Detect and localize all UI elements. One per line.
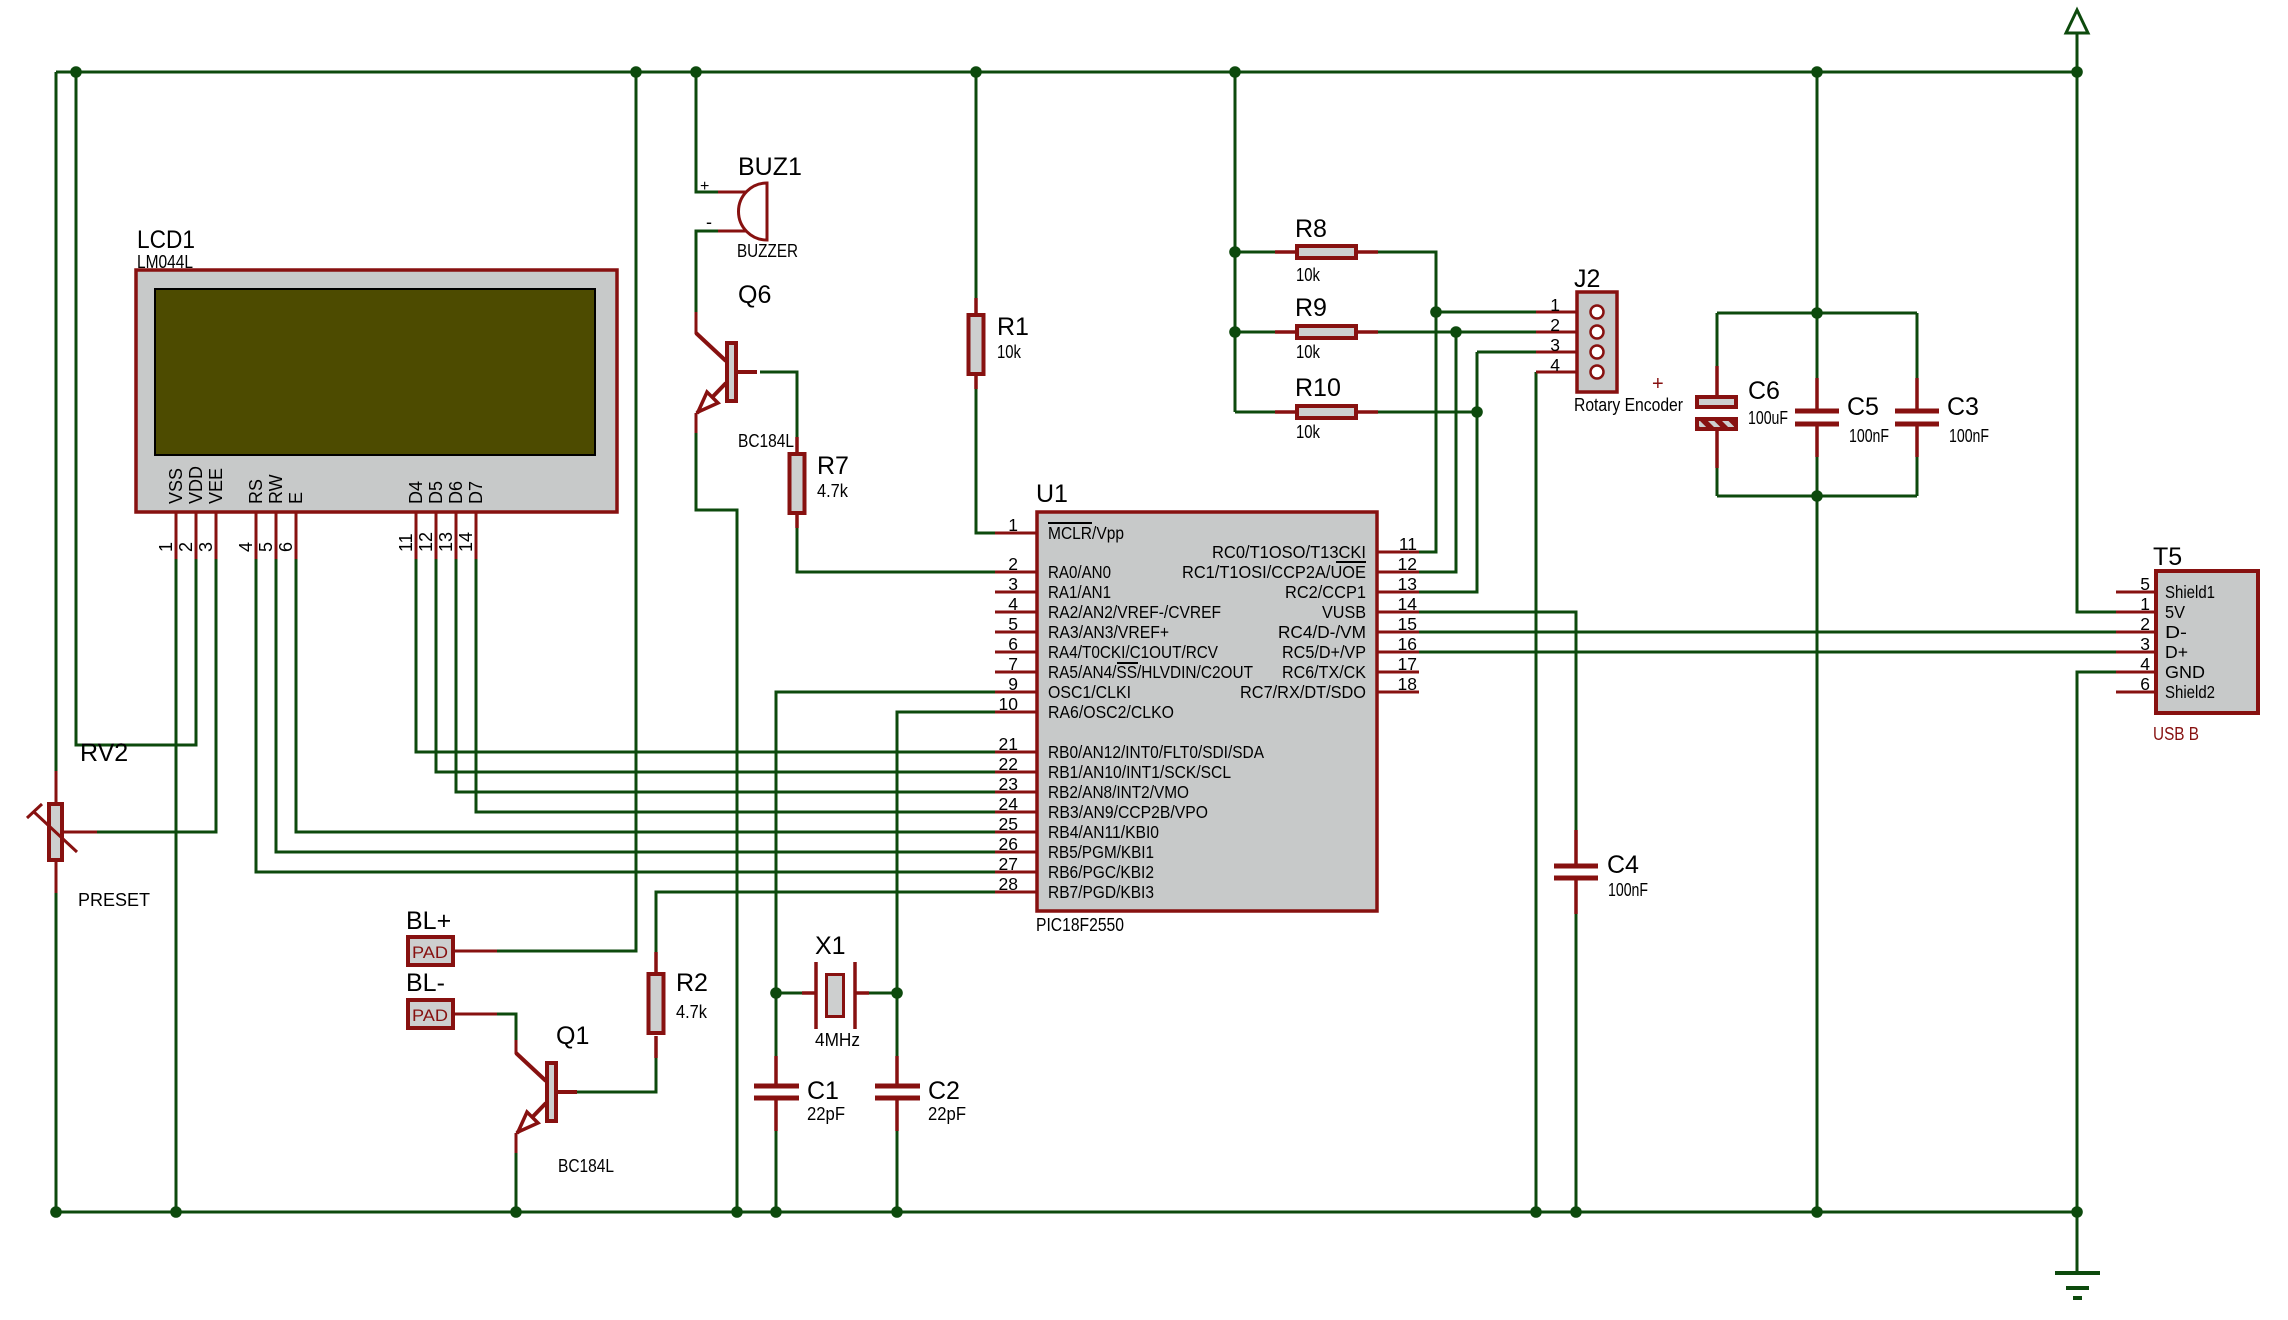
wire VEE net RV2 wiper to LCD pin3 — [97, 559, 216, 832]
svg-text:D+: D+ — [2165, 642, 2188, 662]
svg-text:PIC18F2550: PIC18F2550 — [1036, 915, 1124, 935]
connector T5 pin numbers — [2140, 574, 2150, 694]
capacitor C6 plus sign — [1652, 373, 1664, 395]
connector J2 pin stubs — [1536, 312, 1577, 372]
svg-text:RA5/AN4/SS/HLVDIN/C2OUT: RA5/AN4/SS/HLVDIN/C2OUT — [1048, 662, 1253, 682]
svg-text:100nF: 100nF — [1608, 880, 1648, 900]
microcontroller U1 part number label — [1036, 915, 1124, 935]
preset potentiometer RV2 labels — [78, 739, 150, 910]
svg-text:X1: X1 — [815, 932, 846, 960]
svg-text:3: 3 — [2140, 634, 2150, 654]
transistor Q6 labels — [738, 281, 794, 451]
svg-text:Shield2: Shield2 — [2165, 682, 2215, 702]
svg-text:9: 9 — [1008, 674, 1018, 694]
LCD LCD1 pin name labels — [166, 466, 486, 504]
svg-text:C3: C3 — [1947, 393, 1979, 421]
svg-text:RV2: RV2 — [80, 739, 128, 767]
capacitor C2 labels — [928, 1077, 966, 1124]
wire OSC2 net U1 pin10 to X1 right and C2 — [869, 712, 995, 1056]
svg-text:RB3/AN9/CCP2B/VPO: RB3/AN9/CCP2B/VPO — [1048, 802, 1208, 822]
resistor R1 — [969, 298, 984, 389]
wire +5V down right side to T5 5V pin — [2077, 33, 2116, 612]
svg-text:Shield1: Shield1 — [2165, 582, 2215, 602]
resistor R8 — [1275, 246, 1378, 258]
capacitor C5 labels — [1847, 393, 1889, 446]
svg-text:C2: C2 — [928, 1077, 960, 1105]
svg-text:2: 2 — [1008, 554, 1018, 574]
buzzer BUZ1 labels — [700, 153, 802, 261]
LCD LCD1 pin stubs — [176, 512, 476, 559]
connector T5 pin labels — [2165, 582, 2215, 702]
LCD LCD1 title label — [137, 226, 195, 272]
pad BL- — [408, 1000, 497, 1028]
svg-text:PAD: PAD — [412, 943, 448, 962]
microcontroller U1 body — [1037, 512, 1377, 911]
microcontroller U1 left pin numbers — [999, 515, 1019, 894]
capacitor C1 — [754, 1056, 799, 1131]
crystal X1 labels — [815, 932, 860, 1050]
svg-text:17: 17 — [1398, 654, 1417, 674]
wire capacitor group bottom bus — [1717, 457, 1917, 502]
svg-text:22: 22 — [999, 754, 1018, 774]
svg-text:D-: D- — [2165, 622, 2187, 642]
wire D4 net LCD pin11 to U1 RB0 — [416, 559, 995, 752]
svg-text:4: 4 — [1008, 594, 1018, 614]
svg-text:100nF: 100nF — [1849, 426, 1889, 446]
svg-text:BUZZER: BUZZER — [737, 241, 798, 261]
svg-text:6: 6 — [1008, 634, 1018, 654]
svg-text:+: + — [700, 178, 709, 195]
svg-text:RC7/RX/DT/SDO: RC7/RX/DT/SDO — [1240, 682, 1366, 702]
svg-text:26: 26 — [999, 834, 1018, 854]
connector J2 labels — [1574, 265, 1683, 415]
svg-text:4: 4 — [2140, 654, 2150, 674]
wire R1 bottom to U1 MCLR — [976, 389, 995, 533]
svg-text:D5: D5 — [426, 481, 446, 504]
svg-text:T5: T5 — [2153, 543, 2182, 571]
capacitor C5 — [1795, 378, 1839, 457]
svg-text:RS: RS — [246, 479, 266, 504]
wire +5V branch to RV2 — [55, 72, 58, 771]
svg-text:D7: D7 — [466, 481, 486, 504]
svg-text:23: 23 — [999, 774, 1018, 794]
wire BUZ1 negative to Q6 collector — [696, 231, 718, 312]
svg-text:RC0/T1OSO/T13CKI: RC0/T1OSO/T13CKI — [1212, 542, 1366, 562]
svg-text:14: 14 — [1398, 594, 1418, 614]
svg-text:3: 3 — [1550, 335, 1560, 355]
LCD LCD1 screen — [155, 289, 595, 455]
svg-text:10k: 10k — [997, 342, 1022, 362]
svg-text:LCD1: LCD1 — [137, 226, 195, 254]
svg-text:5: 5 — [2140, 574, 2150, 594]
wire D7 net LCD pin14 to U1 RB3 — [476, 559, 995, 812]
svg-text:RB1/AN10/INT1/SCK/SCL: RB1/AN10/INT1/SCK/SCL — [1048, 762, 1231, 782]
wire capacitor group bottom to GND rail — [1816, 496, 1819, 1212]
microcontroller U1 left pin labels — [1048, 523, 1264, 902]
svg-text:VEE: VEE — [206, 468, 226, 504]
svg-text:+: + — [1652, 373, 1664, 395]
svg-text:RB4/AN11/KBI0: RB4/AN11/KBI0 — [1048, 822, 1159, 842]
transistor Q1 body with collector base emitter — [516, 1040, 577, 1153]
pad BL+ label — [406, 907, 451, 935]
svg-text:22pF: 22pF — [928, 1104, 966, 1124]
svg-text:21: 21 — [999, 734, 1018, 754]
svg-text:7: 7 — [1008, 654, 1018, 674]
svg-text:J2: J2 — [1574, 265, 1600, 293]
svg-text:5: 5 — [1008, 614, 1018, 634]
svg-text:BL-: BL- — [406, 969, 445, 997]
svg-text:E: E — [286, 492, 306, 504]
svg-text:VSS: VSS — [166, 468, 186, 504]
svg-text:10k: 10k — [1296, 265, 1321, 285]
svg-text:RA1/AN1: RA1/AN1 — [1048, 582, 1111, 602]
wire +5V riser to capacitor group — [1816, 72, 1819, 313]
pad BL- label — [406, 969, 445, 997]
wire Q1 emitter to GND rail — [515, 1153, 518, 1212]
wire net R8 to J2 pin1 and U1 RC0 — [1378, 252, 1536, 552]
svg-text:18: 18 — [1398, 674, 1417, 694]
svg-text:R7: R7 — [817, 452, 849, 480]
microcontroller U1 right pin stubs — [1377, 552, 1419, 692]
svg-text:100uF: 100uF — [1748, 408, 1788, 428]
buzzer BUZ1 leads — [718, 192, 747, 231]
wire +5V top rail — [56, 71, 2077, 74]
capacitor C6 labels — [1748, 377, 1788, 428]
preset potentiometer RV2 body — [49, 804, 62, 860]
wire C2 bottom to GND rail — [896, 1131, 899, 1212]
svg-text:13: 13 — [1398, 574, 1417, 594]
svg-text:D4: D4 — [406, 481, 426, 504]
wire C4 bottom to GND rail — [1575, 914, 1578, 1212]
svg-text:RA3/AN3/VREF+: RA3/AN3/VREF+ — [1048, 622, 1169, 642]
svg-text:RA4/T0CKI/C1OUT/RCV: RA4/T0CKI/C1OUT/RCV — [1048, 642, 1218, 662]
svg-text:RB7/PGD/KBI3: RB7/PGD/KBI3 — [1048, 882, 1154, 902]
svg-text:VDD: VDD — [186, 466, 206, 504]
LCD LCD1 body — [136, 270, 617, 512]
svg-text:RB5/PGM/KBI1: RB5/PGM/KBI1 — [1048, 842, 1154, 862]
junction dots on +5V rail — [70, 66, 2083, 338]
svg-text:RC6/TX/CK: RC6/TX/CK — [1282, 662, 1366, 682]
LCD LCD1 pin numbers — [156, 532, 476, 552]
wire RW net LCD pin5 to U1 RB5 — [276, 559, 995, 852]
wire VDD loop from +5V rail to LCD pin2 — [76, 72, 196, 745]
capacitor C4 labels — [1607, 851, 1648, 900]
svg-text:16: 16 — [1398, 634, 1417, 654]
svg-text:PAD: PAD — [412, 1006, 448, 1025]
wire E net LCD pin6 to U1 RB4 — [296, 559, 995, 832]
wire R7 bottom to U1 RA0 — [797, 528, 995, 572]
svg-text:3: 3 — [196, 542, 216, 552]
wire net R9 to J2 pin2 and U1 RC1 — [1378, 326, 1536, 572]
connector T5 body — [2156, 571, 2258, 713]
svg-text:RB0/AN12/INT0/FLT0/SDI/SDA: RB0/AN12/INT0/FLT0/SDI/SDA — [1048, 742, 1264, 762]
capacitor C1 labels — [807, 1077, 845, 1124]
wire R2 bottom to Q1 base — [577, 1058, 656, 1092]
svg-text:C1: C1 — [807, 1077, 839, 1105]
wire OSC1 net U1 pin9 to X1 left and C1 — [770, 692, 995, 1056]
capacitor C2 — [875, 1056, 920, 1131]
wire J2 pin4 to GND rail — [1535, 372, 1538, 1212]
svg-text:R2: R2 — [676, 969, 708, 997]
svg-text:RA0/AN0: RA0/AN0 — [1048, 562, 1111, 582]
svg-text:14: 14 — [456, 532, 476, 552]
connector J2 pin numbers — [1550, 295, 1560, 375]
ground symbol bottom right — [2055, 1212, 2100, 1298]
svg-text:VUSB: VUSB — [1322, 602, 1366, 622]
crystal X1 — [802, 962, 869, 1029]
svg-text:BC184L: BC184L — [738, 431, 794, 451]
junction dots on GND rail — [50, 1206, 2083, 1218]
resistor R9 — [1275, 326, 1378, 338]
connector T5 USB B label — [2153, 724, 2199, 744]
connector T5 pin stubs — [2116, 592, 2156, 692]
wire D6 net LCD pin13 to U1 RB2 — [456, 559, 995, 792]
svg-text:Rotary Encoder: Rotary Encoder — [1574, 395, 1683, 415]
resistor R1 labels — [997, 313, 1029, 362]
svg-text:3: 3 — [1008, 574, 1018, 594]
svg-text:11: 11 — [1399, 534, 1417, 554]
resistor R7 labels — [817, 452, 849, 501]
connector J2 pin circles — [1591, 306, 1604, 379]
transistor Q1 labels — [556, 1022, 614, 1176]
wire D+ net U1 RC5 to T5 — [1419, 651, 2116, 654]
resistor R9 labels — [1295, 294, 1327, 362]
wire C1 bottom to GND rail — [775, 1131, 778, 1212]
svg-text:RA6/OSC2/CLKO: RA6/OSC2/CLKO — [1048, 702, 1174, 722]
svg-text:Q6: Q6 — [738, 281, 771, 309]
wire D- net U1 RC4 to T5 — [1419, 631, 2116, 634]
wire Q6 emitter to GND rail — [696, 433, 737, 1212]
capacitor C3 — [1895, 378, 1939, 457]
svg-text:1: 1 — [156, 542, 176, 552]
svg-text:C6: C6 — [1748, 377, 1780, 405]
preset potentiometer RV2 leads — [56, 771, 97, 893]
svg-text:1: 1 — [1550, 295, 1560, 315]
wire LCD VSS to GND rail — [175, 559, 178, 1212]
svg-text:4: 4 — [236, 542, 256, 552]
svg-text:C5: C5 — [1847, 393, 1879, 421]
svg-text:27: 27 — [999, 854, 1018, 874]
wire +5V to BUZ1 positive — [696, 72, 718, 192]
resistor R10 — [1275, 406, 1378, 418]
svg-text:R9: R9 — [1295, 294, 1327, 322]
resistor R8 labels — [1295, 215, 1327, 285]
wire U1 RB7 to R2 top — [656, 892, 995, 952]
wire GND bottom rail — [56, 1211, 2077, 1214]
wire T5 GND pin to GND rail — [2077, 672, 2116, 1212]
svg-text:11: 11 — [396, 533, 416, 552]
svg-text:22pF: 22pF — [807, 1104, 845, 1124]
svg-text:BL+: BL+ — [406, 907, 451, 935]
svg-text:R8: R8 — [1295, 215, 1327, 243]
svg-text:25: 25 — [999, 814, 1018, 834]
svg-text:-: - — [706, 212, 712, 232]
microcontroller U1 left pin stubs — [995, 533, 1037, 892]
resistor R2 — [649, 952, 664, 1058]
capacitor C3 labels — [1947, 393, 1989, 446]
svg-text:2: 2 — [2140, 614, 2150, 634]
svg-text:U1: U1 — [1036, 480, 1068, 508]
wire +5V bus to R8 R9 R10 — [1235, 72, 1275, 412]
svg-text:RB2/AN8/INT2/VMO: RB2/AN8/INT2/VMO — [1048, 782, 1189, 802]
svg-text:D6: D6 — [446, 481, 466, 504]
svg-text:R1: R1 — [997, 313, 1029, 341]
svg-text:LM044L: LM044L — [137, 252, 193, 272]
resistor R2 labels — [676, 969, 708, 1022]
microcontroller U1 title — [1036, 480, 1068, 508]
svg-text:10: 10 — [999, 694, 1019, 714]
svg-text:2: 2 — [1550, 315, 1560, 335]
svg-text:4: 4 — [1550, 355, 1560, 375]
svg-text:BC184L: BC184L — [558, 1156, 614, 1176]
svg-text:12: 12 — [416, 532, 436, 552]
wire +5V to R1 top — [975, 72, 978, 298]
resistor R7 — [790, 437, 805, 528]
svg-text:4.7k: 4.7k — [817, 481, 849, 501]
wire Q6 base to R7 top — [760, 372, 797, 437]
capacitor C4 — [1554, 830, 1598, 914]
svg-text:5V: 5V — [2165, 602, 2185, 622]
svg-text:24: 24 — [999, 794, 1019, 814]
svg-text:12: 12 — [1398, 554, 1417, 574]
wire D5 net LCD pin12 to U1 RB1 — [436, 559, 995, 772]
svg-text:1: 1 — [1008, 515, 1018, 535]
svg-text:RB6/PGC/KBI2: RB6/PGC/KBI2 — [1048, 862, 1154, 882]
svg-text:15: 15 — [1398, 614, 1417, 634]
svg-text:4MHz: 4MHz — [815, 1030, 860, 1050]
pad BL+ — [408, 937, 497, 965]
wire capacitor group top bus — [1717, 307, 1917, 378]
svg-text:10k: 10k — [1296, 422, 1321, 442]
svg-text:Q1: Q1 — [556, 1022, 589, 1050]
svg-text:MCLR/Vpp: MCLR/Vpp — [1048, 523, 1124, 543]
svg-text:5: 5 — [256, 542, 276, 552]
svg-text:OSC1/CLKI: OSC1/CLKI — [1048, 682, 1131, 702]
wire BL- pad to Q1 collector — [497, 1014, 516, 1040]
svg-text:BUZ1: BUZ1 — [738, 153, 802, 181]
svg-text:PRESET: PRESET — [78, 890, 150, 910]
svg-text:1: 1 — [2140, 594, 2150, 614]
svg-text:RC5/D+/VP: RC5/D+/VP — [1282, 642, 1366, 662]
svg-text:100nF: 100nF — [1949, 426, 1989, 446]
wire RV2 bottom to GND — [55, 893, 58, 1212]
microcontroller U1 right pin labels — [1182, 542, 1366, 702]
microcontroller U1 overlines MCLR SS UOE — [1048, 523, 1366, 663]
connector T5 title — [2153, 543, 2182, 571]
svg-text:GND: GND — [2165, 662, 2205, 682]
wire BL+ riser to +5V rail — [497, 72, 636, 951]
svg-text:RW: RW — [266, 474, 286, 504]
svg-text:RC4/D-/VM: RC4/D-/VM — [1278, 622, 1366, 642]
svg-text:13: 13 — [436, 532, 456, 552]
resistor R10 labels — [1295, 374, 1341, 442]
buzzer BUZ1 symbol — [739, 183, 768, 240]
preset potentiometer RV2 wiper arrow — [27, 804, 77, 852]
transistor Q6 body with collector base emitter — [696, 312, 757, 433]
svg-text:10k: 10k — [1296, 342, 1321, 362]
wire RS net LCD pin4 to U1 RB6 — [256, 559, 995, 872]
power symbol +5V arrow top right — [2066, 10, 2088, 33]
svg-text:2: 2 — [176, 542, 196, 552]
svg-text:28: 28 — [999, 874, 1018, 894]
connector J2 body — [1577, 292, 1617, 392]
svg-text:RA2/AN2/VREF-/CVREF: RA2/AN2/VREF-/CVREF — [1048, 602, 1221, 622]
svg-text:4.7k: 4.7k — [676, 1002, 708, 1022]
svg-text:6: 6 — [276, 542, 296, 552]
wire VUSB net U1 pin14 to C4 top — [1419, 612, 1576, 830]
wire net R10 to J2 pin3 and U1 RC2 — [1378, 352, 1536, 592]
svg-text:R10: R10 — [1295, 374, 1341, 402]
capacitor C6 polarized — [1697, 366, 1736, 468]
microcontroller U1 right pin numbers — [1398, 534, 1418, 694]
svg-text:RC2/CCP1: RC2/CCP1 — [1285, 582, 1366, 602]
svg-text:USB B: USB B — [2153, 724, 2199, 744]
svg-text:C4: C4 — [1607, 851, 1639, 879]
svg-text:6: 6 — [2140, 674, 2150, 694]
svg-text:RC1/T1OSI/CCP2A/UOE: RC1/T1OSI/CCP2A/UOE — [1182, 562, 1366, 582]
